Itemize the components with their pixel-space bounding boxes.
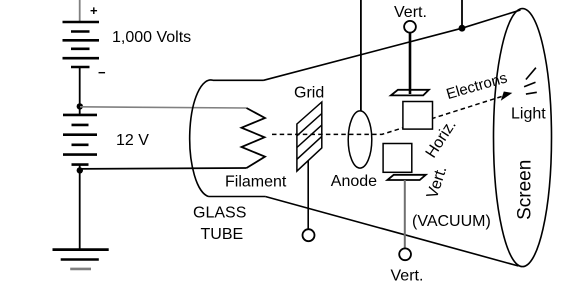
wire to cone coating from top	[461, 0, 463, 28]
glass tube neck top edge	[213, 79, 264, 81]
svg-text:TUBE: TUBE	[201, 226, 244, 243]
svg-text:12 V: 12 V	[116, 132, 149, 149]
light ray 3	[526, 92, 537, 94]
wire B2 to ground	[79, 165, 81, 250]
svg-text:GLASS: GLASS	[193, 205, 246, 222]
bottom vert wire (gray)	[404, 180, 406, 248]
top vertical deflection plate	[391, 90, 429, 96]
electron beam dashed line	[272, 94, 510, 134]
svg-text:Vert.: Vert.	[394, 4, 427, 21]
wire B1 to B2	[79, 67, 81, 115]
light ray 2	[524, 82, 535, 87]
wire from top edge to battery B1	[79, 0, 81, 21]
grid terminal circle	[303, 229, 315, 241]
svg-text:Screen: Screen	[514, 160, 535, 220]
grid wire	[307, 161, 309, 230]
electron beam arrowhead	[501, 92, 513, 101]
glass tube neck bottom edge	[209, 196, 266, 198]
top vert wire	[409, 33, 412, 94]
anode wire from top	[360, 0, 362, 111]
svg-text:1,000 Volts: 1,000 Volts	[112, 29, 191, 46]
svg-text:Vert.: Vert.	[424, 164, 450, 201]
light ray 1	[526, 68, 536, 80]
svg-text:Vert.: Vert.	[391, 268, 424, 285]
horizontal deflection plate square 1	[403, 102, 433, 130]
horizontal deflection plate square 2	[383, 144, 412, 173]
svg-text:Filament: Filament	[225, 174, 287, 191]
bottom vertical deflection plate	[387, 175, 425, 180]
anode ellipse	[348, 111, 372, 168]
ground	[53, 248, 109, 251]
svg-text:(VACUUM): (VACUUM)	[412, 213, 491, 230]
svg-text:Anode: Anode	[331, 173, 377, 190]
svg-text:Electrons: Electrons	[444, 69, 509, 103]
filament heater zigzag	[242, 108, 266, 168]
svg-text:Light: Light	[511, 106, 546, 123]
top vert terminal circle	[404, 21, 416, 33]
junction node A	[77, 103, 83, 109]
wire filament top (gray)	[80, 107, 247, 108]
wire filament bottom	[80, 167, 247, 170]
glass tube neck left arc	[190, 80, 213, 197]
cone bottom edge	[265, 197, 518, 267]
battery B2 12 V	[63, 115, 97, 165]
cone top edge	[264, 10, 521, 80]
svg-text:+: +	[90, 3, 98, 18]
svg-text:Grid: Grid	[294, 85, 324, 102]
grid G1 hatched parallelogram	[297, 102, 322, 171]
battery B1 1,000 Volts	[63, 22, 100, 67]
svg-text:−: −	[98, 65, 106, 80]
junction node B	[77, 167, 83, 173]
screen bell ellipse	[494, 9, 552, 267]
bottom vert terminal circle	[399, 248, 411, 260]
coating junction dot	[459, 25, 466, 32]
